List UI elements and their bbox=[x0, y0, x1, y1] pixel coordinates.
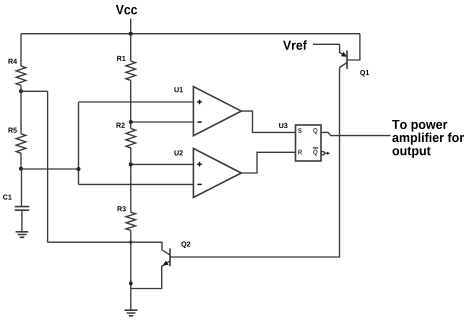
wire R4 bottom bbox=[20, 85, 22, 91]
wire U1 plus input bbox=[79, 101, 194, 103]
resistor R1 bbox=[126, 61, 136, 80]
wire left rail mid bbox=[20, 91, 22, 134]
junction dot R4-R5 bbox=[19, 89, 23, 93]
transistor Q2 label bbox=[181, 242, 190, 249]
junction dot R1-R2 bbox=[129, 120, 133, 124]
transistor Q2 collector lead bbox=[162, 242, 170, 255]
op-amp U2 bbox=[193, 148, 241, 197]
resistor R5 bbox=[16, 134, 26, 153]
node Vcc label bbox=[116, 5, 137, 14]
wire Vref bbox=[313, 43, 340, 45]
junction dot above emitter return bbox=[129, 282, 133, 286]
op-amp U2 label bbox=[174, 150, 182, 155]
wire latch Q output bbox=[321, 132, 391, 135]
resistor R5 label bbox=[8, 128, 16, 133]
wire C1 to ground bbox=[21, 210, 23, 231]
transistor Q1 collector lead bbox=[340, 63, 348, 68]
transistor Q2 bar bbox=[169, 248, 171, 266]
op-amp U1 plus sign bbox=[197, 100, 202, 105]
latch Q-bar bubble bbox=[321, 152, 324, 155]
junction dot x78 bbox=[77, 167, 81, 171]
wire R3 down to ground bbox=[130, 230, 132, 309]
resistor R4 bbox=[16, 66, 26, 85]
ground below Q2 bbox=[125, 310, 138, 316]
capacitor C1 label bbox=[3, 195, 12, 200]
latch U3 label bbox=[279, 123, 287, 128]
junction dot R2-R3 bbox=[129, 162, 133, 166]
latch U3 pin Q bbox=[313, 128, 317, 134]
wire left rail upper bbox=[20, 34, 22, 66]
wire Vcc stem bbox=[130, 19, 132, 34]
junction dot Vcc rail bbox=[129, 32, 133, 36]
latch Q-bar stub bbox=[325, 152, 329, 154]
junction dot R5-C1 bbox=[19, 167, 23, 171]
wire R2 to R3 bbox=[130, 148, 132, 212]
wire bottom horizontal to Q2 collector bbox=[48, 241, 162, 243]
capacitor C1 bbox=[15, 207, 30, 211]
op-amp U2 minus sign bbox=[197, 183, 201, 185]
wire vertical x48 bbox=[47, 91, 49, 242]
resistor R1 label bbox=[117, 56, 125, 61]
wire U2 plus input bbox=[131, 163, 194, 165]
transistor Q1 base lead to Vcc rail bbox=[347, 34, 360, 60]
resistor R3 label bbox=[117, 206, 125, 211]
transistor Q2 emitter arrowhead bbox=[163, 261, 169, 266]
wire R1 to R2 bbox=[130, 80, 132, 128]
wire vertical x78 bbox=[78, 102, 80, 184]
op-amp U2 plus sign bbox=[197, 162, 202, 167]
wire R5 junction to comparator inputs bbox=[21, 168, 79, 170]
resistor R2 label bbox=[116, 123, 124, 128]
ground below C1 bbox=[16, 232, 29, 238]
latch U3 pin Q-bar overline bbox=[313, 147, 318, 149]
wire U1 output to latch S bbox=[241, 111, 295, 132]
latch U3 pin Q-bar bbox=[313, 150, 317, 156]
latch U3 box bbox=[296, 125, 322, 161]
transistor Q1 label bbox=[360, 70, 369, 77]
op-amp U1 label bbox=[174, 87, 182, 92]
junction dot R3-Q2 collector wire bbox=[129, 241, 132, 244]
latch U3 pin R bbox=[298, 150, 302, 155]
transistor Q1 emitter lead bbox=[340, 44, 347, 56]
transistor Q1 emitter arrowhead bbox=[341, 52, 347, 57]
wire U2 output to latch R bbox=[241, 152, 295, 173]
wire top Vcc rail bbox=[21, 33, 360, 35]
wire U2 minus input bbox=[79, 183, 194, 185]
resistor R2 bbox=[126, 129, 136, 148]
transistor Q1 bar bbox=[346, 51, 348, 70]
latch Q-bar stub arrowhead bbox=[327, 152, 330, 155]
resistor R4 label bbox=[8, 59, 17, 64]
wire U1 minus input bbox=[131, 121, 194, 123]
output text bbox=[392, 120, 464, 158]
op-amp U1 bbox=[193, 87, 241, 136]
wire R1 top bbox=[130, 34, 132, 61]
wire Q1 collector rail down right side bbox=[170, 68, 340, 258]
op-amp U1 minus sign bbox=[197, 121, 201, 123]
resistor R3 bbox=[126, 212, 136, 230]
wire left rail lower to C1 bbox=[21, 169, 23, 207]
latch U3 pin S bbox=[298, 128, 302, 133]
wire R4-R5 junction to right bbox=[21, 90, 48, 92]
transistor Q2 emitter lead bbox=[131, 261, 170, 289]
wire R5 bottom bbox=[20, 153, 22, 169]
node Vref label bbox=[283, 40, 307, 50]
